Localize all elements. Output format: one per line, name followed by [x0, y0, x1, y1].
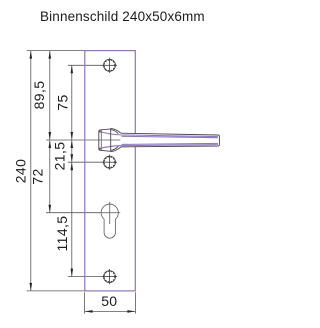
- extension line plate bottom: [27, 290, 85, 292]
- arrow dim 240 bottom: [30, 283, 33, 291]
- arrow dim 21.5 top: [71, 140, 74, 148]
- extension line bottom screw center: [68, 276, 103, 278]
- dimension line 75 / 21.5 / 114.5: [71, 65, 73, 276]
- svg-text:89,5: 89,5: [31, 81, 47, 110]
- handle lever white body (occludes plate edge): [121, 133, 219, 147]
- dimension line 89.5 / 72: [49, 51, 51, 213]
- arrow dim 50 left: [85, 310, 93, 313]
- backplate outline: [85, 51, 136, 291]
- extension line top screw center: [68, 64, 103, 66]
- arrow dim 72 bottom: [49, 205, 52, 213]
- arrow dim 75 bottom: [71, 132, 74, 140]
- centerline handle axis: [46, 139, 120, 141]
- handle collar: [111, 128, 121, 151]
- svg-text:114,5: 114,5: [54, 216, 70, 252]
- handle purple contours: [100, 132, 217, 149]
- arrow dim 114.5 top: [71, 162, 74, 170]
- width dimension extension lines: [84, 292, 86, 313]
- euro cylinder keyhole: [99, 202, 120, 238]
- dimension line 50: [85, 310, 136, 312]
- arrow dim 114.5 bottom: [71, 269, 74, 277]
- arrow dim 21.5 bottom: [71, 154, 74, 162]
- lower screw: [102, 155, 117, 170]
- svg-text:50: 50: [101, 293, 117, 309]
- arrow dim 72 top: [49, 140, 52, 148]
- extension line lower screw center: [68, 161, 103, 163]
- top screw: [102, 58, 117, 73]
- arrow dim 240 top: [30, 51, 33, 59]
- handle lever: [121, 133, 219, 147]
- svg-text:21,5: 21,5: [52, 142, 68, 171]
- extension line cylinder center: [46, 212, 100, 214]
- dimension line 240: [30, 51, 32, 291]
- extension line plate top: [27, 50, 85, 52]
- svg-text:240: 240: [12, 159, 28, 184]
- handle neck: [99, 128, 111, 151]
- arrow dim 50 right: [127, 310, 135, 313]
- svg-text:75: 75: [54, 94, 70, 110]
- arrow dim 89.5 bottom: [49, 132, 52, 140]
- arrow dim 89.5 top: [49, 51, 52, 59]
- svg-text:Binnenschild 240x50x6mm: Binnenschild 240x50x6mm: [40, 9, 205, 24]
- arrow dim 75 top: [71, 65, 74, 73]
- bottom screw: [102, 269, 117, 284]
- svg-text:72: 72: [30, 168, 46, 184]
